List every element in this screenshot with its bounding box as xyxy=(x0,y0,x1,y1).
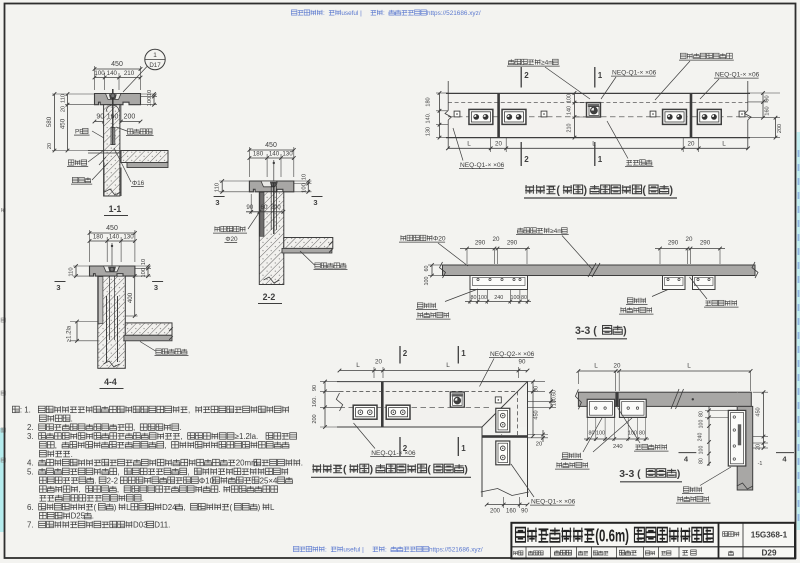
svg-text:160: 160 xyxy=(765,106,771,115)
svg-text:useful |: useful | xyxy=(343,547,364,554)
svg-text:1: 1 xyxy=(598,71,603,80)
section 2-2 anchor extension xyxy=(273,160,275,183)
left edge remnant glyphs xyxy=(1,208,5,212)
3-3 corner cut mark 4 left xyxy=(679,452,697,454)
svg-text:,: , xyxy=(117,467,119,476)
svg-text:1: 1 xyxy=(461,349,466,358)
title plan straight xyxy=(525,185,534,194)
svg-text:290: 290 xyxy=(475,240,486,247)
svg-text:.: . xyxy=(71,450,73,459)
svg-text:450: 450 xyxy=(534,410,540,419)
svg-text:10: 10 xyxy=(141,259,147,265)
section 2-2 precast roof board xyxy=(282,248,332,253)
svg-text:20: 20 xyxy=(61,106,67,112)
svg-text:20: 20 xyxy=(756,444,762,450)
svg-text:(: ( xyxy=(343,465,347,476)
top watermark text blue xyxy=(291,10,297,15)
svg-text:.: . xyxy=(71,414,73,423)
svg-text:2: 2 xyxy=(403,349,408,358)
svg-text:20: 20 xyxy=(536,442,542,448)
plan straight connector box 2 xyxy=(502,109,526,124)
section 1-1 ref leader xyxy=(123,67,147,93)
svg-text:,: , xyxy=(117,485,119,494)
svg-text:,: , xyxy=(133,423,135,432)
svg-text:D03: D03 xyxy=(133,521,148,530)
section 2-2 parapet cap xyxy=(249,181,293,192)
svg-text:-1: -1 xyxy=(758,461,763,467)
svg-text:NEQ-Q1-× ×06: NEQ-Q1-× ×06 xyxy=(460,162,505,169)
svg-text:,: , xyxy=(79,485,81,494)
section 2-2 cut mark 3 left xyxy=(214,196,225,198)
svg-text:): ) xyxy=(258,503,261,512)
svg-text:110: 110 xyxy=(61,94,67,103)
3-3 corner bottom dims left xyxy=(587,417,589,441)
svg-text:290: 290 xyxy=(507,240,518,247)
svg-text:100: 100 xyxy=(511,295,520,301)
svg-text:Φ16: Φ16 xyxy=(132,180,145,187)
svg-text:100: 100 xyxy=(424,277,430,286)
svg-text:): ) xyxy=(114,503,117,512)
svg-text:L: L xyxy=(270,503,275,512)
svg-text:,: , xyxy=(183,503,185,512)
3-3 corner cut mark 4 right xyxy=(776,452,794,454)
section 1-1 dim 100 140 210 xyxy=(104,73,106,90)
svg-text:,: , xyxy=(55,441,57,450)
svg-text::: : xyxy=(325,547,327,554)
corner plan joint thick divider xyxy=(381,382,384,427)
label only for wall length 3-3 xyxy=(517,228,523,233)
svg-text:20: 20 xyxy=(495,141,502,148)
corner plan top dim line xyxy=(373,367,375,378)
3-3 corner band mid break xyxy=(671,389,679,409)
3-3 corner top dim xyxy=(615,371,617,391)
svg-text:290: 290 xyxy=(700,240,711,247)
svg-text:100: 100 xyxy=(147,97,153,107)
svg-text:240: 240 xyxy=(613,444,623,450)
svg-text:100.60: 100.60 xyxy=(552,390,558,406)
3-3 straight cast box right A xyxy=(663,276,686,290)
section 1-1 left dims 580 450 20 110 xyxy=(52,93,95,95)
label precast roof board 2-2 xyxy=(315,263,321,268)
svg-text:: 1.: : 1. xyxy=(20,406,31,415)
svg-text:100: 100 xyxy=(699,420,705,429)
svg-text:210: 210 xyxy=(124,70,135,77)
plan straight center square vertical dim xyxy=(572,102,587,104)
svg-text:450: 450 xyxy=(106,225,118,232)
svg-text:(0.6m): (0.6m) xyxy=(595,527,629,546)
svg-text:L: L xyxy=(126,503,131,512)
plan straight connector box 4 xyxy=(697,109,721,124)
svg-text:2: 2 xyxy=(524,155,529,164)
svg-text:.: . xyxy=(92,512,94,521)
3-3 straight cast box right B xyxy=(693,276,716,290)
svg-text:L: L xyxy=(467,141,471,148)
svg-text:(: ( xyxy=(230,503,233,512)
svg-text:2: 2 xyxy=(524,71,529,80)
svg-text:100: 100 xyxy=(596,431,605,437)
svg-text:D25: D25 xyxy=(71,512,86,521)
svg-text:100: 100 xyxy=(94,70,105,77)
svg-text:(: ( xyxy=(556,185,560,197)
svg-text:450: 450 xyxy=(111,61,123,68)
corner plan dashed cap line xyxy=(340,390,518,392)
3-3 straight top dim right 290 20 290 xyxy=(659,249,661,265)
svg-text:20: 20 xyxy=(686,236,693,243)
section 4-4 dim 180 140 130 xyxy=(106,237,108,262)
title block atlas no label xyxy=(742,523,744,559)
section 2-2 dim 180 140 130 xyxy=(266,154,268,177)
svg-text:7.: 7. xyxy=(27,521,34,530)
section 2-2 dim 450 top xyxy=(248,147,250,177)
section 2-2 roof slab hatch xyxy=(284,238,333,249)
3-3 straight left dim rotated 100 60 xyxy=(428,264,443,266)
svg-text:450: 450 xyxy=(265,142,277,149)
svg-text:100: 100 xyxy=(302,183,308,193)
plan straight panel joint thick left xyxy=(497,93,500,138)
svg-text:1: 1 xyxy=(461,444,466,453)
title block outer frame xyxy=(511,523,795,559)
svg-text:3: 3 xyxy=(313,198,317,207)
section 4-4 vertical rebars xyxy=(106,296,108,362)
3-3 corner leg cast box xyxy=(728,410,746,466)
svg-text:20: 20 xyxy=(614,363,621,370)
3-3 straight band end breaks xyxy=(440,262,446,278)
svg-text:2.: 2. xyxy=(27,423,34,432)
plan straight small anchor squares xyxy=(454,111,460,117)
corner plan leg thick divider xyxy=(482,435,528,438)
svg-text:(: ( xyxy=(642,185,646,197)
corner plan connector box 2 xyxy=(386,405,410,419)
plan straight section line 1 bottom xyxy=(594,142,596,166)
svg-text:L: L xyxy=(356,362,360,369)
3-3 corner right dims xyxy=(753,391,768,393)
svg-text:90: 90 xyxy=(519,359,526,366)
svg-text:D11.: D11. xyxy=(154,521,170,530)
section 1-1 cap anchor bolt xyxy=(109,95,116,99)
corner plan section 1 top xyxy=(457,346,459,364)
svg-text:NEQ-Q1-× ×06: NEQ-Q1-× ×06 xyxy=(715,72,760,79)
svg-text:180: 180 xyxy=(426,97,432,106)
svg-text:210: 210 xyxy=(567,124,573,133)
svg-text:10: 10 xyxy=(302,174,308,180)
section 2-2 wall lower xyxy=(264,277,280,283)
section 1-1 wall xyxy=(104,105,120,196)
label temp joint corner xyxy=(635,445,641,450)
svg-text:130: 130 xyxy=(426,127,432,136)
corner plan band outline xyxy=(337,382,528,427)
svg-text:400: 400 xyxy=(127,292,134,303)
svg-text:100: 100 xyxy=(141,268,147,278)
3-3 corner band left break xyxy=(575,389,581,409)
section 1-1 detail ref circle 1/D17 xyxy=(145,49,165,69)
svg-text:60: 60 xyxy=(424,266,430,272)
corner plan leg right dims xyxy=(528,381,546,383)
plan straight left dims rotated xyxy=(436,92,448,94)
label railing embed part xyxy=(680,53,686,58)
section 4-4 wall xyxy=(98,276,126,368)
plan straight bottom dim line xyxy=(490,138,492,152)
svg-text:L: L xyxy=(722,141,726,148)
section 1-1 dim 90 160 200 under cap xyxy=(103,105,105,123)
section 4-4 cut mark 3 right xyxy=(152,281,163,283)
bottom watermark text blue xyxy=(293,546,299,551)
plan straight band outline xyxy=(448,93,748,137)
label cast segment left 3-3s xyxy=(417,303,423,308)
svg-text:NEQ-Q2-× ×06: NEQ-Q2-× ×06 xyxy=(490,351,535,358)
plan straight connector box 1 xyxy=(469,109,493,124)
label threaded blind hole xyxy=(127,129,133,134)
svg-text:): ) xyxy=(670,185,674,197)
svg-text:90: 90 xyxy=(521,509,528,515)
svg-text:20: 20 xyxy=(688,141,695,148)
section 4-4 anchor extension xyxy=(111,243,113,268)
svg-text:,: , xyxy=(164,441,166,450)
svg-text:90: 90 xyxy=(96,114,104,121)
plan straight section line 2 bottom xyxy=(520,142,522,166)
section 2-2 cut mark 3 right xyxy=(312,196,323,198)
title block signature row xyxy=(513,551,517,555)
section 4-4 precast roof board xyxy=(124,335,172,341)
svg-text:25×4: 25×4 xyxy=(260,476,278,485)
svg-text:240: 240 xyxy=(698,433,704,442)
svg-text::: : xyxy=(383,10,385,17)
corner plan left break xyxy=(336,393,342,411)
plan straight dashed cap line upper xyxy=(448,101,748,103)
svg-text:https://521686.xyz/: https://521686.xyz/ xyxy=(427,10,481,17)
label cap anchor rebar 3-3 xyxy=(400,235,406,240)
section 4-4 dim 400 xyxy=(125,275,137,277)
svg-text:2-2: 2-2 xyxy=(107,476,118,485)
label cap anchor rebar xyxy=(214,226,220,231)
svg-text:10: 10 xyxy=(147,90,153,96)
plan straight end break marks xyxy=(447,81,449,111)
svg-text:450: 450 xyxy=(60,118,67,129)
title block page label xyxy=(728,551,733,556)
svg-text:3-3 (: 3-3 ( xyxy=(619,469,641,480)
section 4-4 dim 450 top xyxy=(89,230,91,262)
svg-text:20: 20 xyxy=(47,143,53,149)
svg-text:200: 200 xyxy=(124,114,136,121)
svg-text:140.: 140. xyxy=(426,112,432,123)
svg-text:Φ20: Φ20 xyxy=(225,236,238,243)
svg-text:Φ10: Φ10 xyxy=(199,476,215,485)
plan straight center square embed xyxy=(587,103,601,117)
svg-text:450: 450 xyxy=(756,407,762,416)
svg-text:≥1.2la: ≥1.2la xyxy=(67,325,73,342)
svg-text:.: . xyxy=(142,494,144,503)
svg-text:180: 180 xyxy=(93,234,104,241)
svg-text:4.: 4. xyxy=(27,459,34,468)
svg-text:100: 100 xyxy=(699,446,705,455)
svg-text:,: , xyxy=(187,467,189,476)
corner plan section 1 bottom xyxy=(457,437,459,456)
section 1-1 roof slab hatch xyxy=(121,151,168,163)
svg-text:1: 1 xyxy=(598,155,603,164)
svg-text:3.: 3. xyxy=(27,432,34,441)
svg-text:15G368-1: 15G368-1 xyxy=(751,531,788,540)
svg-text:80: 80 xyxy=(471,295,477,301)
svg-text:130: 130 xyxy=(123,234,134,241)
svg-text:5.: 5. xyxy=(27,467,34,476)
svg-text:Φ20: Φ20 xyxy=(433,236,446,243)
svg-text:(: ( xyxy=(94,503,97,512)
svg-text:https://521686.xyz/: https://521686.xyz/ xyxy=(429,547,483,554)
section 2-2 right dim 100 10 xyxy=(294,180,312,182)
svg-text:290: 290 xyxy=(668,240,679,247)
svg-text:100: 100 xyxy=(478,295,487,301)
svg-text:1-1: 1-1 xyxy=(109,204,122,214)
svg-text:(: ( xyxy=(427,465,431,476)
svg-text:110: 110 xyxy=(69,267,75,276)
section 4-4 dim 1.2la xyxy=(70,321,98,323)
svg-text::: : xyxy=(323,10,325,17)
svg-text:3: 3 xyxy=(56,283,60,292)
corner plan leg boxes xyxy=(496,408,510,432)
svg-text:130: 130 xyxy=(282,151,293,158)
section 2-2 left dim 110 xyxy=(219,180,249,182)
svg-text:3: 3 xyxy=(215,198,219,207)
label grout xyxy=(72,177,78,182)
title corner plan xyxy=(312,464,321,473)
svg-text:L: L xyxy=(594,363,598,370)
section 1-1 precast roof board xyxy=(127,163,168,168)
svg-text:60: 60 xyxy=(261,204,268,211)
section 4-4 wall lower break xyxy=(104,361,120,367)
svg-text:3: 3 xyxy=(154,283,158,292)
section 4-4 parapet cap xyxy=(90,266,135,276)
svg-text:160: 160 xyxy=(107,114,119,121)
corner plan leg bottom dim xyxy=(503,497,505,508)
svg-text:80: 80 xyxy=(699,411,705,417)
notes text block xyxy=(12,406,19,412)
label cast segment corner bottom xyxy=(683,487,689,492)
svg-text:6.: 6. xyxy=(27,503,34,512)
section 4-4 right dim 100 10 xyxy=(135,265,151,267)
svg-text:80: 80 xyxy=(699,458,705,464)
svg-text:2-2: 2-2 xyxy=(263,292,276,302)
svg-text:.: . xyxy=(218,485,220,494)
3-3 corner center vertical dims xyxy=(705,409,728,411)
svg-text:,: , xyxy=(188,406,190,415)
corner plan section 2 bottom xyxy=(399,437,401,456)
svg-text:): ) xyxy=(370,465,373,476)
right edge vertical watermark dashes xyxy=(798,150,800,157)
section 2-2 anchor rebar xyxy=(273,183,275,234)
svg-text:NEQ-Q1-× ×06: NEQ-Q1-× ×06 xyxy=(371,450,416,457)
3-3 corner concrete band xyxy=(578,392,751,406)
label cast segment right 3-3s xyxy=(627,298,633,303)
corner plan left dims rotated xyxy=(320,381,340,383)
3-3 straight band center break xyxy=(588,263,596,277)
svg-text:200: 200 xyxy=(777,124,783,133)
svg-text:L: L xyxy=(446,362,450,369)
svg-text:90: 90 xyxy=(312,385,318,391)
svg-text:160.: 160. xyxy=(312,396,318,407)
svg-text:useful |: useful | xyxy=(341,10,362,17)
svg-text:D29: D29 xyxy=(761,549,776,558)
plan straight section line 1 top xyxy=(594,67,596,88)
svg-text:.: . xyxy=(301,459,303,468)
svg-text:240: 240 xyxy=(494,295,503,301)
section 1-1 dim 450 top xyxy=(94,66,96,90)
svg-text:290: 290 xyxy=(270,204,281,211)
3-3 corner rebar dot xyxy=(692,398,694,400)
section 4-4 cut mark 3 left xyxy=(55,281,66,283)
section 1-1 grout sleeve in wall xyxy=(106,105,119,111)
svg-text:180: 180 xyxy=(253,151,264,158)
svg-text:140: 140 xyxy=(269,151,280,158)
svg-text:D17: D17 xyxy=(149,62,161,69)
section 4-4 wall edge strip xyxy=(98,277,103,324)
corner plan leg dim 20 xyxy=(528,434,549,436)
svg-text:1: 1 xyxy=(153,52,157,59)
svg-text:80: 80 xyxy=(521,295,527,301)
svg-text:200: 200 xyxy=(490,509,501,515)
section 1-1 wall lower part xyxy=(103,163,105,197)
corner plan leg xyxy=(481,427,483,497)
svg-text:140: 140 xyxy=(109,234,120,241)
3-3 corner leg concrete xyxy=(737,406,753,490)
label precast roof board 4-4 xyxy=(156,349,162,354)
3-3 straight bottom dim 80 100 240 100 80 xyxy=(469,290,471,305)
svg-text:100: 100 xyxy=(567,94,573,103)
section 2-2 anchor bar plate xyxy=(260,192,264,236)
svg-text:20mm: 20mm xyxy=(236,459,258,468)
left edge cyan watermark strip xyxy=(0,428,5,532)
section 2-2 dim 90 160 290 xyxy=(250,194,252,214)
corner plan section 2 top xyxy=(399,346,401,364)
title block main title text xyxy=(516,527,714,546)
svg-text:140: 140 xyxy=(107,70,118,77)
svg-text:D24: D24 xyxy=(162,503,177,512)
svg-text:.: . xyxy=(94,476,96,485)
svg-text:): ) xyxy=(583,185,587,197)
svg-text:3-3 (: 3-3 ( xyxy=(575,325,597,337)
svg-text:90: 90 xyxy=(765,95,771,101)
3-3 straight top dim left 290 20 290 xyxy=(466,249,468,265)
3-3 corner cast box 1 xyxy=(587,399,614,417)
svg-text:4-4: 4-4 xyxy=(104,377,117,387)
3-3 corner band joint divider xyxy=(615,392,618,406)
svg-text:NEQ-Q1-× ×06: NEQ-Q1-× ×06 xyxy=(612,70,657,77)
section 4-4 left dim 110 xyxy=(73,265,90,267)
svg-text:NEQ-Q1-× ×06: NEQ-Q1-× ×06 xyxy=(531,499,576,506)
3-3 straight concrete band xyxy=(443,265,756,276)
svg-text:580: 580 xyxy=(46,116,53,127)
section 1-1 right dim 100 10 rotated xyxy=(141,93,158,95)
svg-text:90: 90 xyxy=(246,204,253,211)
plan straight section line 2 top xyxy=(520,67,522,88)
section 4-4 roof slab hatch xyxy=(125,323,172,335)
svg-text:): ) xyxy=(623,325,627,337)
3-3 corner cast box 2 xyxy=(620,399,647,417)
corner plan leg break xyxy=(481,489,529,496)
title block main title cell xyxy=(511,546,795,548)
3-3 corner leg break xyxy=(737,483,753,489)
3-3 straight cast segment box left xyxy=(470,276,528,290)
svg-text::: : xyxy=(385,547,387,554)
plan straight dashed cap line lower xyxy=(448,116,748,118)
plan straight connector box 3 xyxy=(663,109,687,124)
section 1-1 parapet cap xyxy=(95,94,141,105)
label lightning wire xyxy=(626,160,632,165)
plan straight panel joint thick right xyxy=(690,93,693,138)
label temperature shrink joint xyxy=(705,301,711,306)
label cast segment corner left xyxy=(562,453,568,458)
section 2-2 wall xyxy=(259,192,284,285)
plan straight right dims rotated xyxy=(748,92,780,94)
svg-text:80: 80 xyxy=(639,431,645,437)
